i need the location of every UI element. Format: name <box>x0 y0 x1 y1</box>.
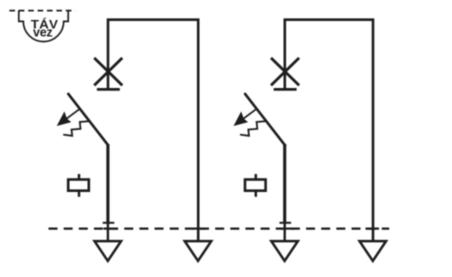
remote control symbol frame <box>19 10 68 41</box>
bay 2 drive box <box>245 174 266 197</box>
bay 1 disconnector open blade and lower wire <box>68 94 114 241</box>
bay 2 disconnector open blade and lower wire <box>245 94 291 241</box>
bay 2 circuit breaker X <box>271 58 299 86</box>
label TÁV <box>31 17 59 31</box>
bay 1 overhead line wire (top horizontal and feeder verticals) <box>108 20 198 241</box>
bay 1 disconnector fixed contact bar <box>97 88 120 91</box>
remote control pilot dashed line <box>9 10 75 12</box>
bay 1 drive box <box>68 174 89 197</box>
bay 2 right cable arrow triangle <box>360 241 387 261</box>
bay 2 left cable arrow triangle <box>271 241 298 261</box>
bay 1 operating arrow shaft <box>64 109 80 121</box>
bay 1 right cable arrow triangle <box>185 241 212 261</box>
bay 1 trip linkage zigzag <box>63 121 90 136</box>
bay 2 overhead line wire (top horizontal and feeder verticals) <box>285 20 373 241</box>
label vez <box>33 26 52 40</box>
boundary dashed line <box>49 228 390 230</box>
bay 1 circuit breaker X <box>94 58 122 86</box>
bay 2 operating arrow shaft <box>240 109 256 121</box>
bay 1 operating arrow head <box>58 113 70 126</box>
bay 2 operating arrow head <box>235 113 248 126</box>
bay 1 left cable arrow triangle <box>95 241 122 261</box>
svg-text:vez: vez <box>33 26 52 40</box>
bay 2 disconnector fixed contact bar <box>274 88 297 91</box>
bay 2 trip linkage zigzag <box>240 121 267 136</box>
